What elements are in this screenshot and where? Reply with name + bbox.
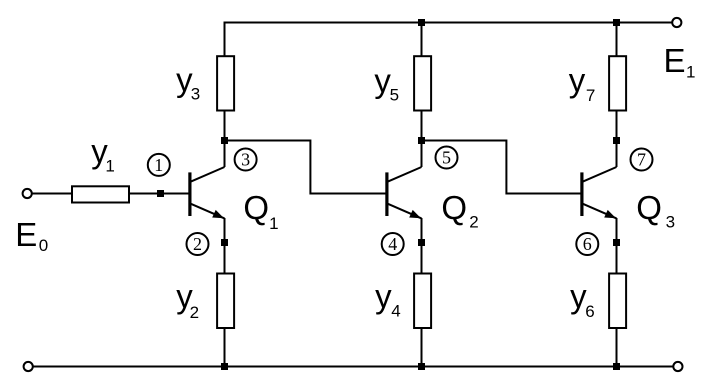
- node 1 junction dot: [157, 190, 164, 197]
- wire: y5 to collector of Q2: [421, 111, 423, 167]
- wire: top supply rail: [225, 23, 672, 57]
- svg-text:5: 5: [442, 148, 451, 168]
- wire: y7 to collector of Q3: [616, 111, 618, 167]
- junction dot: stage 2 on ground rail: [418, 363, 425, 370]
- node 6 junction dot: [613, 239, 620, 246]
- wire: y6 to ground rail: [616, 329, 618, 367]
- resistor y5 (collector load): [414, 56, 431, 110]
- svg-text:E: E: [15, 216, 37, 253]
- svg-text:E: E: [664, 42, 686, 79]
- svg-text:4: 4: [388, 234, 397, 254]
- transistor Q1: [190, 167, 225, 218]
- svg-text:1: 1: [686, 63, 695, 82]
- node 4 circled label: [382, 233, 404, 255]
- svg-text:3: 3: [191, 85, 200, 104]
- wire: Q3 emitter to y6: [616, 218, 618, 273]
- resistor y1: [72, 186, 129, 202]
- terminal (bottom left, open circle): [24, 362, 33, 371]
- wire: node 5 to Q3 base (coupling): [422, 141, 584, 194]
- svg-text:1: 1: [154, 155, 163, 175]
- resistor y7 (collector load): [609, 56, 626, 110]
- transistor Q2: [387, 167, 422, 218]
- node 3 circled label: [235, 149, 257, 171]
- node 2 junction dot: [221, 239, 228, 246]
- wire: Q1 emitter to y2: [224, 218, 226, 273]
- terminal E0 (input, open circle): [23, 189, 32, 198]
- svg-text:Q: Q: [243, 189, 269, 226]
- svg-text:4: 4: [391, 301, 400, 320]
- svg-text:7: 7: [637, 150, 646, 170]
- node 7 circled label: [631, 149, 653, 171]
- transistor Q3: [582, 167, 617, 218]
- wire: y5 to top rail: [421, 23, 423, 58]
- terminal (bottom right, open circle): [673, 362, 682, 371]
- svg-text:y: y: [375, 277, 392, 314]
- svg-text:3: 3: [241, 150, 250, 170]
- junction dot: stage 1 on ground rail: [221, 363, 228, 370]
- junction dot: stage 3 on ground rail: [613, 363, 620, 370]
- node 6 circled label: [576, 233, 598, 255]
- svg-text:Q: Q: [441, 189, 467, 226]
- wire: y3 to collector of Q1: [224, 111, 226, 167]
- resistor y3 (collector load): [217, 56, 234, 110]
- node 1 circled label: [148, 154, 170, 176]
- node 5 junction dot: [418, 137, 425, 144]
- node 5 circled label: [436, 147, 458, 169]
- resistor y6 (emitter): [609, 274, 626, 329]
- svg-text:7: 7: [586, 86, 595, 105]
- svg-text:2: 2: [193, 234, 202, 254]
- svg-text:6: 6: [585, 302, 594, 321]
- wire: E0 terminal to y1: [33, 193, 73, 195]
- resistor y2 (emitter): [217, 274, 234, 329]
- svg-text:0: 0: [39, 236, 48, 255]
- svg-text:3: 3: [666, 213, 675, 232]
- svg-text:1: 1: [105, 156, 114, 175]
- junction dot: stage 2 on top rail: [418, 19, 425, 26]
- node 7 junction dot: [613, 137, 620, 144]
- wire: y7 to top rail: [616, 23, 618, 58]
- svg-text:1: 1: [269, 214, 278, 233]
- svg-text:y: y: [569, 62, 586, 99]
- wire: node 3 to Q2 base (coupling): [225, 141, 389, 194]
- node 4 junction dot: [418, 239, 425, 246]
- terminal E1 (top right, open circle): [672, 18, 681, 27]
- node 2 circled label: [187, 233, 209, 255]
- wire: y4 to ground rail: [421, 329, 423, 367]
- wire: y1 to Q1 base: [129, 193, 191, 195]
- wire: Q2 emitter to y4: [421, 218, 423, 273]
- junction dot: stage 3 on top rail: [613, 19, 620, 26]
- node 3 junction dot: [221, 137, 228, 144]
- wire: bottom ground rail: [33, 366, 673, 368]
- svg-text:Q: Q: [636, 189, 662, 226]
- svg-text:5: 5: [390, 86, 399, 105]
- svg-text:2: 2: [469, 212, 478, 231]
- resistor y4 (emitter): [414, 274, 431, 329]
- wire: y2 to ground rail: [224, 329, 226, 367]
- svg-text:6: 6: [583, 234, 592, 254]
- svg-text:2: 2: [190, 303, 199, 322]
